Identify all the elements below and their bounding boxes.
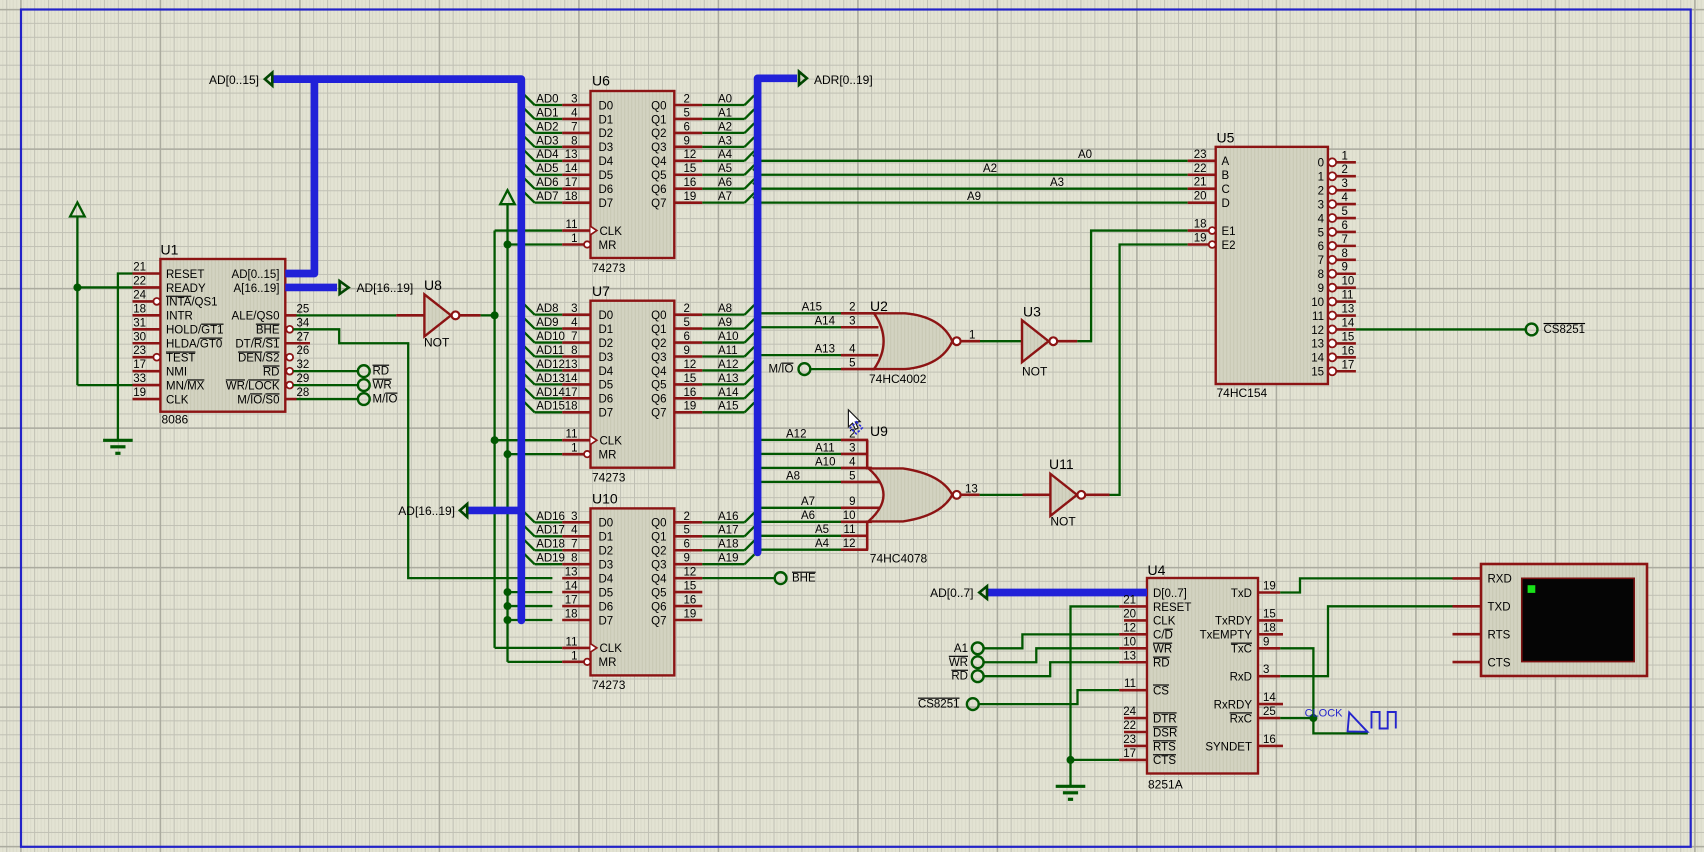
svg-text:25: 25 [1263,706,1276,718]
svg-text:13: 13 [1123,650,1136,662]
svg-text:22: 22 [133,275,146,287]
bus arrow AD[16..19] (U10 side) [460,504,467,517]
U1 right pin stubs [285,314,296,317]
svg-text:19: 19 [133,387,146,399]
svg-text:RxRDY: RxRDY [1214,699,1253,711]
svg-text:4: 4 [1318,213,1325,225]
ground (U1 RESET) [117,439,120,442]
wire U11 out to U5 E2 [1110,245,1188,495]
svg-text:3: 3 [1318,199,1324,211]
svg-text:CLK: CLK [1153,616,1176,628]
svg-text:14: 14 [1263,692,1276,704]
bus A[16..19] from U1 [285,284,337,292]
wire A5 to ADR bus [702,174,744,176]
junction CTS/ground [1067,756,1075,764]
latch U6 74273 body [591,91,675,258]
wire MR vertical net [506,204,508,662]
svg-text:5: 5 [1342,206,1348,218]
svg-text:Q3: Q3 [651,142,666,154]
svg-text:TEST: TEST [166,353,195,365]
junction MR at U7 [504,450,512,458]
svg-text:AD8: AD8 [536,303,558,315]
svg-text:C/D: C/D [1153,630,1173,642]
svg-text:30: 30 [133,331,146,343]
svg-text:AD14: AD14 [536,387,565,399]
U4 left pin stubs [1119,605,1147,608]
svg-text:Q6: Q6 [651,601,666,613]
svg-text:21: 21 [1194,177,1207,189]
svg-text:U6: U6 [592,73,610,89]
wire RESET to ground [118,274,133,440]
wire A1 to ADR bus [702,118,744,120]
svg-text:27: 27 [297,331,310,343]
svg-text:15: 15 [684,373,697,385]
svg-text:DEN/S2: DEN/S2 [238,353,280,365]
terminal WR [358,379,370,391]
svg-text:Q6: Q6 [651,394,666,406]
wire A2 bus to U5.B [753,169,759,175]
svg-text:D0: D0 [599,100,614,112]
svg-text:Q0: Q0 [651,100,666,112]
svg-text:D1: D1 [599,114,614,126]
svg-text:14: 14 [565,581,578,593]
virtual terminal screen [1522,578,1634,661]
svg-text:RTS: RTS [1488,630,1511,642]
svg-text:A19: A19 [718,553,738,565]
svg-text:D5: D5 [599,380,614,392]
svg-text:22: 22 [1123,720,1136,732]
svg-text:A17: A17 [718,525,738,537]
svg-text:8: 8 [1342,248,1348,260]
wire U4 TxC / RxC / clock net [1280,648,1368,733]
svg-text:RD: RD [263,366,280,378]
svg-text:Q5: Q5 [651,380,666,392]
wire A2 to ADR bus [702,132,744,134]
svg-text:AD[0..15]: AD[0..15] [209,73,259,87]
svg-text:A1: A1 [718,107,732,119]
wire A3 to ADR bus [702,146,744,148]
svg-text:A12: A12 [786,428,806,440]
svg-text:AD1: AD1 [536,107,558,119]
svg-text:11: 11 [1342,290,1354,302]
svg-text:U11: U11 [1049,456,1074,472]
svg-text:5: 5 [684,317,690,329]
svg-text:A[16..19]: A[16..19] [233,283,279,295]
nor-gate U9 74HC4078 body [841,439,868,442]
svg-text:TxEMPTY: TxEMPTY [1200,630,1253,642]
junction CLK at U8 output [491,311,499,319]
wire U10 D5 tie [508,591,553,593]
svg-text:RxD: RxD [1230,672,1252,684]
svg-text:18: 18 [1194,219,1207,231]
svg-text:17: 17 [1342,359,1355,371]
wire U8 output to CLK net [481,314,495,316]
svg-text:15: 15 [1263,608,1276,620]
svg-text:RxC: RxC [1230,713,1252,725]
svg-text:Q6: Q6 [651,184,666,196]
svg-text:C: C [1222,184,1230,196]
svg-text:A10: A10 [718,331,738,343]
terminal CS8251 (U4 side) [967,698,979,710]
svg-text:5: 5 [849,358,855,370]
svg-text:2: 2 [849,302,855,314]
wire VCC vertical to READY and MN/MX [76,217,78,386]
svg-text:5: 5 [849,470,855,482]
svg-text:AD15: AD15 [536,401,565,413]
terminal CS8251 (U5 side) [1526,324,1538,336]
svg-text:Q4: Q4 [651,156,667,168]
svg-text:D6: D6 [599,601,614,613]
svg-text:6: 6 [1342,220,1348,232]
U6 input pin stubs [562,104,590,107]
terminal BHE [775,572,787,584]
svg-text:AD2: AD2 [536,121,558,133]
wire AD7 from AD bus [535,201,563,203]
svg-text:11: 11 [566,219,578,231]
svg-text:READY: READY [166,283,206,295]
svg-text:A11: A11 [815,442,835,454]
junction RxC/clock [1309,714,1317,722]
svg-text:18: 18 [1263,622,1276,634]
svg-text:10: 10 [1342,276,1355,288]
svg-text:19: 19 [684,191,697,203]
power flag VCC (MR net) [500,190,515,204]
wire terminal TXD to U4 RxD [1280,606,1452,676]
svg-text:A4: A4 [815,538,830,550]
wire A15 to U2.2 [758,312,841,314]
wire A16 to ADR bus [702,521,744,523]
wire A7 to U9 [758,507,841,509]
wire U4 RESET to ground [1071,606,1120,785]
svg-text:AD6: AD6 [536,177,558,189]
decoder U5 74HC154 body [1216,147,1328,384]
svg-text:A5: A5 [718,163,732,175]
wire AD6 from AD bus [535,188,563,190]
svg-text:NMI: NMI [166,366,187,378]
svg-text:32: 32 [297,359,310,371]
svg-text:18: 18 [565,401,578,413]
svg-text:A0: A0 [1078,149,1092,161]
svg-text:19: 19 [684,401,697,413]
svg-text:18: 18 [565,608,578,620]
svg-text:10: 10 [843,510,856,522]
svg-text:D2: D2 [599,128,614,140]
clock generator CLOCK symbol [1348,713,1368,732]
svg-text:14: 14 [565,373,578,385]
svg-text:5: 5 [1318,227,1324,239]
svg-text:Q0: Q0 [651,518,666,530]
wire U10 Q4 to BHE terminal [702,577,775,579]
svg-text:AD[0..7]: AD[0..7] [930,586,973,600]
svg-text:21: 21 [133,262,146,274]
wire AD8 from AD bus [535,313,563,315]
svg-text:TxRDY: TxRDY [1215,616,1252,628]
svg-text:INTR: INTR [166,311,193,323]
svg-text:AD3: AD3 [536,135,558,147]
svg-text:WR/LOCK: WR/LOCK [226,380,280,392]
svg-text:11: 11 [566,636,578,648]
svg-text:17: 17 [565,387,578,399]
svg-text:CS: CS [1153,685,1169,697]
svg-text:D6: D6 [599,394,614,406]
ground (U4) [1069,785,1072,788]
U10 input pin stubs [562,521,590,524]
wire AD1 from AD bus [535,118,563,120]
svg-text:22: 22 [1194,163,1207,175]
svg-text:9: 9 [1263,636,1269,648]
U4 right pin stubs [1258,591,1280,594]
svg-text:A9: A9 [967,191,981,203]
wire A8 to ADR bus [702,313,744,315]
svg-text:6: 6 [684,539,690,551]
svg-text:6: 6 [684,331,690,343]
svg-text:A7: A7 [718,191,732,203]
svg-text:11: 11 [566,429,578,441]
svg-text:A16: A16 [718,511,738,523]
svg-text:3: 3 [571,511,577,523]
svg-text:BHE: BHE [256,325,280,337]
svg-text:CLK: CLK [166,394,189,406]
svg-text:A10: A10 [815,456,835,468]
svg-text:AD19: AD19 [536,553,565,565]
svg-text:AD12: AD12 [536,359,565,371]
wire A1 to U4 C/D [984,634,1120,648]
svg-text:A6: A6 [801,510,815,522]
svg-text:AD5: AD5 [536,163,558,175]
svg-text:A8: A8 [786,470,800,482]
svg-text:D1: D1 [599,324,614,336]
svg-text:74HC4002: 74HC4002 [869,372,927,386]
svg-text:14: 14 [1311,353,1324,365]
svg-text:74HC4078: 74HC4078 [870,552,928,566]
svg-text:BHE: BHE [792,573,816,585]
junction U10 D7 [504,616,512,624]
wire A6 to ADR bus [702,188,744,190]
svg-text:1: 1 [1318,172,1324,184]
svg-text:9: 9 [1318,283,1324,295]
wire AD19 from AD bus [535,563,563,565]
wire AD9 from AD bus [535,327,563,329]
svg-text:7: 7 [1342,234,1348,246]
svg-text:U5: U5 [1217,130,1235,146]
svg-text:D3: D3 [599,560,614,572]
svg-text:18: 18 [133,303,146,315]
svg-text:Q1: Q1 [651,324,666,336]
svg-text:2: 2 [1318,185,1324,197]
usart U4 8251A body [1147,578,1258,774]
svg-text:12: 12 [684,149,697,161]
svg-text:D7: D7 [599,615,614,627]
svg-text:25: 25 [297,303,310,315]
svg-text:ADR[0..19]: ADR[0..19] [814,73,873,87]
svg-text:D4: D4 [599,156,614,168]
svg-text:CLOCK: CLOCK [1305,708,1344,720]
terminal RD [358,365,370,377]
svg-text:21: 21 [1123,594,1136,606]
svg-text:19: 19 [1263,581,1276,593]
wire A12 to U9 [758,439,841,441]
terminal WR (U4) [972,656,984,668]
svg-text:14: 14 [565,163,578,175]
svg-text:5: 5 [684,525,690,537]
svg-text:1: 1 [571,233,577,245]
wire A3 bus to U5.C [753,183,759,189]
wire U9 out to U11 in [980,494,1023,496]
svg-text:AD7: AD7 [536,191,558,203]
svg-text:20: 20 [1123,608,1136,620]
svg-text:12: 12 [684,359,697,371]
svg-text:19: 19 [684,608,697,620]
U7 input pin stubs [562,313,590,316]
wire BHE to U10 D4 [293,329,552,578]
mouse cursor [848,410,860,430]
svg-text:4: 4 [571,107,578,119]
svg-text:D4: D4 [599,573,614,585]
svg-text:74273: 74273 [592,261,626,275]
svg-text:34: 34 [297,317,310,329]
svg-text:CLK: CLK [600,436,623,448]
svg-text:RXD: RXD [1488,574,1512,586]
U5 output pin stubs [1328,158,1336,166]
svg-text:5: 5 [684,107,690,119]
svg-text:7: 7 [571,121,577,133]
bus arrow AD[0..15] [265,73,272,86]
wire A11 to U9 [758,453,841,455]
svg-text:E1: E1 [1222,226,1236,238]
svg-text:12: 12 [1311,325,1324,337]
svg-text:29: 29 [297,373,310,385]
svg-text:AD9: AD9 [536,317,558,329]
svg-text:4: 4 [1342,192,1349,204]
svg-text:A8: A8 [718,303,732,315]
wire AD11 from AD bus [535,355,563,357]
wire A19 to ADR bus [702,563,744,565]
wire MN/MX [77,384,132,386]
svg-text:RESET: RESET [166,269,204,281]
svg-text:D4: D4 [599,366,614,378]
wire AD12 from AD bus [535,369,563,371]
svg-text:12: 12 [684,567,697,579]
svg-text:Q4: Q4 [651,366,667,378]
bus ADR[0..19] run [758,78,797,552]
svg-text:9: 9 [684,553,690,565]
wire AD0 from AD bus [535,104,563,106]
wire AD2 from AD bus [535,132,563,134]
svg-text:Q2: Q2 [651,338,666,350]
virtual terminal pin stubs [1453,577,1482,580]
nor-gate U2 74HC4002 body [841,312,875,315]
svg-text:D6: D6 [599,184,614,196]
svg-text:AD[0..15]: AD[0..15] [232,269,280,281]
terminal RD (U4) [972,670,984,682]
wire AD15 from AD bus [535,411,563,413]
svg-text:RESET: RESET [1153,602,1191,614]
svg-text:AD[16..19]: AD[16..19] [398,504,455,518]
virtual terminal instrument body [1481,564,1647,676]
svg-text:0: 0 [1318,158,1324,170]
svg-text:NOT: NOT [1050,515,1076,529]
wire M/IO terminal to U2.5 [810,368,841,370]
svg-text:Q7: Q7 [651,198,666,210]
svg-text:CTS: CTS [1488,657,1511,669]
svg-text:26: 26 [297,345,310,357]
U7 output pin stubs [674,313,702,316]
wire A14 to ADR bus [702,397,744,399]
svg-text:Q2: Q2 [651,546,666,558]
wire A8 to U9 [758,481,841,483]
svg-text:1: 1 [571,650,577,662]
svg-text:4: 4 [571,525,578,537]
wire AD17 from AD bus [535,535,563,537]
svg-text:U1: U1 [161,242,179,258]
svg-text:ALE/QS0: ALE/QS0 [232,311,280,323]
svg-text:1: 1 [1342,150,1348,162]
wire A4 to ADR bus [702,160,744,162]
svg-text:12: 12 [843,538,856,550]
svg-text:D2: D2 [599,546,614,558]
svg-text:Q5: Q5 [651,170,666,182]
wire U10 D7 tie [508,619,553,621]
bus AD[0..7] at U4 [988,589,1147,597]
wire A4 to U9 [758,549,841,551]
wire A11 to ADR bus [702,355,744,357]
svg-text:8: 8 [571,135,577,147]
wire U5 out 12 to CS8251 terminal [1356,328,1526,330]
svg-text:A9: A9 [718,317,732,329]
svg-text:Q5: Q5 [651,587,666,599]
wire A13 to ADR bus [702,383,744,385]
wire AD16 from AD bus [535,521,563,523]
U6 output pin stubs [674,104,702,107]
svg-text:15: 15 [684,581,697,593]
bus AD[0..15] branch to U1 [285,82,314,274]
svg-text:RD: RD [373,366,390,378]
U5 left pin stubs [1188,160,1216,163]
svg-text:1: 1 [969,330,975,342]
svg-text:A15: A15 [718,401,738,413]
svg-text:16: 16 [1263,734,1276,746]
wire RD to terminal [293,370,358,372]
svg-text:14: 14 [1342,317,1355,329]
junction U10 D6 [504,602,512,610]
svg-text:Q0: Q0 [651,310,666,322]
svg-text:CLK: CLK [600,226,623,238]
svg-text:A12: A12 [718,359,738,371]
svg-text:D2: D2 [599,338,614,350]
svg-text:17: 17 [565,177,578,189]
svg-text:D5: D5 [599,587,614,599]
svg-text:11: 11 [1124,678,1136,690]
svg-text:A6: A6 [718,177,732,189]
svg-text:A7: A7 [801,496,815,508]
wire A10 to ADR bus [702,341,744,343]
svg-text:MN/MX: MN/MX [166,380,205,392]
svg-text:SYNDET: SYNDET [1205,741,1252,753]
svg-text:DTR: DTR [1153,713,1177,725]
svg-text:16: 16 [1342,345,1355,357]
svg-text:M/IO: M/IO [373,394,398,406]
svg-text:A11: A11 [718,345,738,357]
svg-text:U9: U9 [870,423,888,439]
wire ALE/CLK vertical net [493,231,495,648]
svg-text:M/IO/S0: M/IO/S0 [237,394,279,406]
svg-text:AD[16..19]: AD[16..19] [357,281,414,295]
svg-text:U10: U10 [592,491,618,507]
svg-text:15: 15 [1311,367,1324,379]
svg-text:AD16: AD16 [536,511,565,523]
svg-text:NOT: NOT [1022,365,1048,379]
svg-text:A13: A13 [815,344,835,356]
